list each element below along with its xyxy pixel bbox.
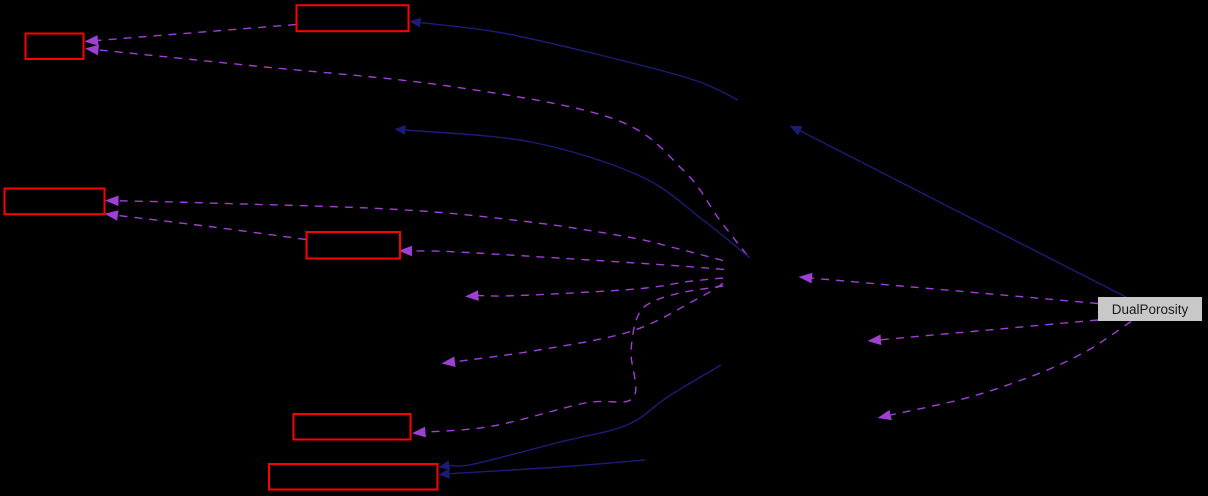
edge B->C (395, 125, 751, 258)
edge B->N3 upper (105, 196, 723, 261)
edge I->N6 lower (439, 460, 646, 479)
svg-text:DualPorosity: DualPorosity (1112, 302, 1189, 317)
node N4 (truncated, text hidden) (307, 232, 401, 259)
edge DP->A (790, 126, 1127, 298)
node N3 (truncated, text hidden) (5, 189, 105, 215)
edge B->N5 (412, 286, 723, 437)
edge B->E (442, 284, 724, 368)
node DualPorosity (1098, 297, 1202, 321)
edge B->D (465, 278, 723, 301)
edge DP->G (878, 322, 1132, 421)
node N5 (truncated, text hidden) (294, 414, 411, 440)
edge B->N1 (85, 45, 747, 255)
node N2 (truncated, text hidden) (297, 5, 409, 31)
edge DP->B (799, 273, 1099, 304)
edge A->N2 (410, 18, 739, 100)
edge B->N4 (399, 246, 725, 270)
edge DP->F (868, 320, 1099, 345)
edge N4->N3 lower (105, 210, 307, 239)
edge N2->N1 (85, 25, 297, 46)
node N1 (truncated, text hidden) (26, 34, 84, 60)
edge H->N6 upper (439, 365, 722, 470)
node N6 (truncated, text hidden) (269, 464, 438, 490)
